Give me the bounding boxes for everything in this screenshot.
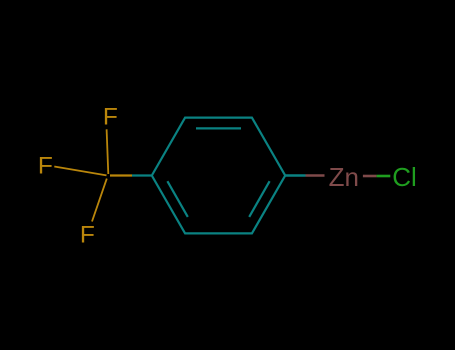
svg-text:Zn: Zn [329, 162, 359, 192]
bond CF3-ring, ring half [132, 174, 151, 176]
bond C-F left [54, 167, 106, 176]
svg-text:F: F [103, 103, 118, 130]
bond Zn-Cl, Zn half [363, 175, 377, 178]
bond ring-Zn, Zn half [306, 174, 325, 176]
bond Zn-Cl, Cl half [377, 175, 391, 178]
double bond inner line bottom-left [167, 181, 187, 217]
svg-text:Cl: Cl [392, 162, 417, 192]
svg-text:F: F [38, 153, 53, 180]
bond ring-Zn, ring half [285, 174, 305, 176]
bond C-F bottom [92, 179, 107, 222]
double bond inner line bottom-right [249, 181, 269, 217]
benzene ring hexagon [152, 118, 285, 234]
bond C-F top [107, 129, 109, 174]
svg-text:F: F [80, 222, 95, 249]
bond CF3-ring, CF3 half [110, 174, 132, 176]
double bond inner line top [196, 127, 241, 129]
